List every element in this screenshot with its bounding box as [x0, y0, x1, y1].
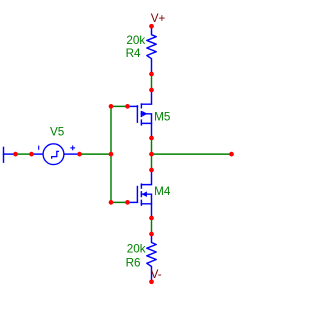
svg-text:M5: M5: [154, 111, 171, 124]
svg-text:20k: 20k: [126, 34, 145, 47]
svg-text:V+: V+: [151, 12, 166, 25]
svg-text:R4: R4: [126, 47, 141, 60]
svg-text:V5: V5: [50, 126, 65, 139]
svg-text:M4: M4: [154, 185, 171, 198]
svg-text:20k: 20k: [127, 243, 146, 256]
svg-text:V-: V-: [151, 268, 162, 281]
svg-text:R6: R6: [126, 257, 141, 270]
